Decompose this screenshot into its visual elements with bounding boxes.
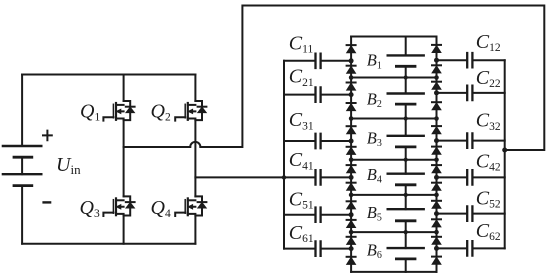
svg-text:C41: C41 (289, 149, 314, 172)
svg-text:C32: C32 (476, 110, 501, 133)
diode DR8 (432, 183, 441, 191)
wire tap B3/B4 (351, 159, 436, 161)
svg-text:B3: B3 (367, 128, 382, 149)
node right bus / top loop (502, 148, 507, 153)
capacitor C52 (437, 206, 505, 220)
svg-text:C51: C51 (289, 188, 314, 211)
node C42 / right string (434, 175, 439, 180)
node tap4 / left string (349, 193, 354, 198)
svg-text:B4: B4 (367, 165, 382, 186)
svg-text:C62: C62 (476, 220, 501, 243)
capacitor C41 (284, 170, 351, 184)
wire from left-leg node toward top loop (124, 146, 191, 148)
battery B2 (388, 78, 424, 119)
battery B1 (388, 37, 424, 78)
svg-text:C42: C42 (476, 151, 501, 174)
svg-text:Q3: Q3 (80, 197, 100, 220)
diode DR3 (432, 82, 441, 90)
wire stack top edge (351, 36, 436, 38)
MOSFET Q1 (103, 101, 134, 121)
node tap1 / left string (349, 75, 354, 80)
diode DR9 (432, 201, 441, 209)
wire hop over right leg (190, 142, 200, 147)
svg-text:C11: C11 (289, 33, 314, 56)
node C41 / left string (349, 175, 354, 180)
wire top loop (200, 6, 544, 151)
svg-text:Q1: Q1 (80, 100, 100, 123)
wire left diode string rail (350, 37, 352, 272)
wire right bridge leg lower (194, 216, 196, 244)
svg-text:Uin: Uin (56, 154, 81, 177)
node left bus / bridge wire (282, 175, 286, 179)
capacitor C42 (437, 170, 505, 184)
diode DL5 (347, 126, 356, 134)
capacitor C31 (284, 134, 351, 148)
wire right bridge leg upper (drain Q2) (194, 75, 196, 102)
diode DR1 (432, 45, 441, 53)
node C22 / right string (434, 90, 439, 95)
diode DL1 (347, 45, 356, 53)
diode DL10 (347, 220, 356, 228)
capacitor C21 (284, 87, 351, 101)
capacitor C62 (437, 241, 505, 255)
svg-text:C22: C22 (476, 67, 501, 90)
battery B4 (388, 160, 424, 195)
node tap4 / right string (434, 193, 439, 198)
diode DL6 (347, 147, 356, 155)
diode DL11 (347, 237, 356, 245)
voltage source Uin (3, 146, 41, 186)
node tap3 / left string (349, 157, 354, 162)
wire right diode string rail (436, 37, 438, 272)
node tap4 / battery column (404, 193, 408, 197)
svg-text:B2: B2 (367, 89, 382, 110)
svg-text:C21: C21 (289, 66, 314, 89)
capacitor C11 (284, 54, 351, 68)
diode DR7 (432, 165, 441, 173)
node tap1 / right string (434, 75, 439, 80)
svg-text:C31: C31 (289, 109, 314, 132)
diode DR4 (432, 102, 441, 110)
node C51 / left string (349, 212, 354, 217)
node tap1 / battery column (404, 75, 408, 79)
diode DR11 (432, 237, 441, 245)
node tap2 / right string (434, 116, 439, 121)
label + (source positive) (43, 131, 52, 141)
wire bottom rail of bridge (22, 243, 195, 245)
node tap3 / battery column (404, 158, 408, 162)
svg-text:B1: B1 (367, 51, 382, 72)
node tap3 / right string (434, 157, 439, 162)
diode DL12 (347, 257, 356, 265)
battery B3 (388, 119, 424, 160)
wire source positive lead (21, 75, 23, 147)
wire from right-leg node to left capacitor bus (195, 176, 284, 178)
diode DL4 (347, 103, 356, 111)
node tap5 / left string (349, 230, 354, 235)
MOSFET Q3 (103, 196, 134, 216)
MOSFET Q2 (175, 101, 206, 121)
node tap5 / battery column (404, 230, 408, 234)
node C21 / left string (349, 92, 354, 97)
svg-text:C52: C52 (476, 187, 501, 210)
diode DL2 (347, 66, 356, 74)
diode DR6 (432, 147, 441, 155)
node tap2 / battery column (404, 116, 408, 120)
node tap2 / left string (349, 116, 354, 121)
node C62 / right string (434, 246, 439, 251)
capacitor C22 (437, 86, 505, 100)
wire source negative lead (21, 186, 23, 244)
label - (source negative) (44, 201, 51, 203)
capacitor C61 (284, 241, 351, 255)
capacitor C12 (437, 53, 505, 67)
wire stack bottom edge (351, 271, 436, 273)
capacitor C32 (437, 133, 505, 147)
wire tap B4/B5 (351, 194, 436, 196)
diode DL7 (347, 165, 356, 173)
left capacitor bus (283, 61, 285, 249)
svg-text:B6: B6 (367, 240, 382, 261)
wire left bridge leg middle (123, 120, 125, 196)
svg-text:C61: C61 (289, 222, 314, 245)
svg-text:B5: B5 (367, 203, 382, 224)
wire top rail of bridge (22, 74, 195, 76)
diode DR10 (432, 219, 441, 227)
capacitor C51 (284, 208, 351, 222)
right capacitor bus (504, 60, 506, 248)
node C61 / left string (349, 246, 354, 251)
wire tap B5/B6 (351, 231, 436, 233)
wire tap B2/B3 (351, 118, 436, 120)
wire left bridge leg lower (123, 216, 125, 244)
battery B5 (388, 195, 424, 232)
node C32 / right string (434, 138, 439, 143)
wire left bridge leg upper (drain Q1) (123, 75, 125, 102)
node C12 / right string (434, 58, 439, 63)
MOSFET Q4 (175, 196, 206, 216)
diode DR12 (432, 257, 441, 265)
node C52 / right string (434, 211, 439, 216)
svg-text:Q4: Q4 (151, 197, 171, 220)
diode DL9 (347, 201, 356, 209)
diode DR5 (432, 126, 441, 134)
wire right bridge leg middle (194, 120, 196, 196)
node C31 / left string (349, 139, 354, 144)
diode DR2 (432, 65, 441, 73)
svg-text:C12: C12 (476, 31, 501, 54)
diode DL3 (347, 83, 356, 91)
diode DL8 (347, 183, 356, 191)
svg-text:Q2: Q2 (151, 100, 171, 123)
wire tap B1/B2 (351, 77, 436, 79)
node C11 / left string (349, 58, 354, 63)
node tap5 / right string (434, 230, 439, 235)
battery B6 (388, 232, 424, 272)
